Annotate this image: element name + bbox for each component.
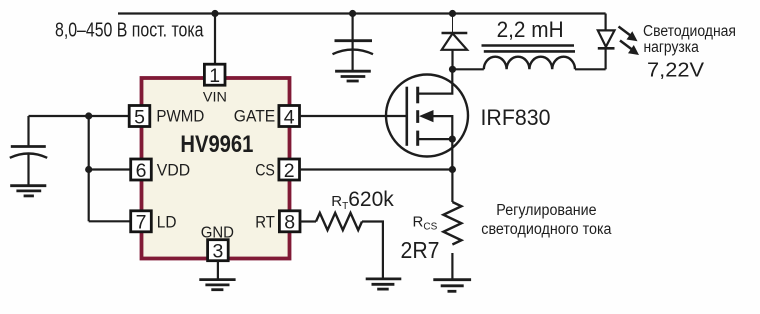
svg-text:RT620k: RT620k bbox=[331, 188, 394, 212]
svg-text:CS: CS bbox=[255, 162, 275, 180]
pin 3 GND bbox=[201, 224, 234, 262]
svg-text:GND: GND bbox=[201, 224, 234, 241]
svg-text:8,0–450 В пост. тока: 8,0–450 В пост. тока bbox=[55, 20, 204, 42]
wire: GATE to MOSFET gate bbox=[300, 115, 407, 117]
ground (below RT) bbox=[366, 279, 402, 289]
resistor RT (timing) bbox=[300, 213, 383, 278]
svg-text:7,22V: 7,22V bbox=[647, 59, 705, 81]
node: CS junction bbox=[449, 166, 456, 173]
node: source junction bbox=[449, 136, 456, 143]
pin 2 CS bbox=[255, 159, 299, 182]
ground (below RCS) bbox=[433, 280, 471, 292]
pin 1 VIN bbox=[203, 64, 227, 104]
svg-text:PWMD: PWMD bbox=[156, 108, 204, 126]
svg-text:HV9961: HV9961 bbox=[180, 131, 253, 158]
wire: CS row to source/Rcs bbox=[300, 168, 453, 170]
ground (IC GND) bbox=[199, 280, 235, 290]
wire: top DC input rail bbox=[118, 12, 606, 14]
svg-text:IRF830: IRF830 bbox=[481, 105, 551, 130]
LED emission arrows bbox=[619, 27, 640, 56]
svg-text:2: 2 bbox=[284, 160, 295, 182]
svg-text:светодиодного тока: светодиодного тока bbox=[481, 221, 612, 238]
svg-text:нагрузка: нагрузка bbox=[644, 39, 700, 56]
svg-text:LD: LD bbox=[157, 213, 177, 231]
svg-text:8: 8 bbox=[284, 212, 295, 234]
svg-text:RT: RT bbox=[255, 213, 275, 231]
node: left bus at VDD row bbox=[85, 166, 92, 173]
capacitor C2 (rail cap) bbox=[333, 14, 374, 71]
pin 6 VDD bbox=[131, 159, 190, 182]
wire: pin1 VIN drop bbox=[214, 14, 216, 65]
node: left bus at PWMD row bbox=[85, 112, 92, 119]
capacitor C1 (input cap left) bbox=[10, 116, 47, 186]
svg-text:RCS: RCS bbox=[413, 214, 438, 233]
svg-text:7: 7 bbox=[136, 212, 147, 234]
node: rail junction at C2 bbox=[349, 10, 356, 17]
node: switching node (D1/L1/drain) bbox=[449, 66, 456, 73]
svg-text:2R7: 2R7 bbox=[401, 237, 440, 263]
pin 8 RT bbox=[255, 211, 300, 234]
pin 5 PWMD bbox=[129, 106, 204, 129]
diode D1 (freewheeling) bbox=[442, 14, 468, 70]
ground (below C2) bbox=[335, 71, 371, 81]
IC U1 HV9961 body bbox=[142, 78, 290, 259]
svg-text:1: 1 bbox=[209, 65, 220, 87]
svg-text:Регулирование: Регулирование bbox=[496, 202, 596, 219]
svg-text:2,2 mH: 2,2 mH bbox=[497, 17, 564, 42]
wire: LD row bbox=[89, 220, 131, 222]
svg-text:VDD: VDD bbox=[157, 162, 190, 180]
resistor RCS (current sense) bbox=[443, 170, 461, 280]
inductor L1 2.2mH bbox=[453, 46, 606, 70]
wire: VDD row bbox=[89, 168, 131, 170]
wire: pin3 to ground bbox=[217, 261, 219, 280]
node: rail junction at VIN bbox=[211, 10, 218, 17]
LED D2 (load) bbox=[598, 14, 615, 70]
wire: left vertical bus bbox=[88, 116, 90, 221]
node: rail junction at D1 bbox=[449, 10, 456, 17]
ground (below C1) bbox=[10, 186, 46, 196]
wire: PWMD row to left cap bbox=[29, 115, 130, 117]
svg-text:6: 6 bbox=[136, 160, 147, 182]
transistor Q1 IRF830 MOSFET bbox=[386, 69, 468, 169]
svg-text:Светодиодная: Светодиодная bbox=[643, 23, 736, 40]
svg-text:5: 5 bbox=[134, 106, 145, 128]
pin 7 LD bbox=[131, 211, 177, 234]
pin 4 GATE bbox=[234, 106, 300, 129]
svg-text:VIN: VIN bbox=[203, 88, 227, 104]
svg-text:4: 4 bbox=[284, 106, 295, 128]
svg-text:GATE: GATE bbox=[234, 108, 275, 126]
svg-text:3: 3 bbox=[212, 241, 223, 263]
